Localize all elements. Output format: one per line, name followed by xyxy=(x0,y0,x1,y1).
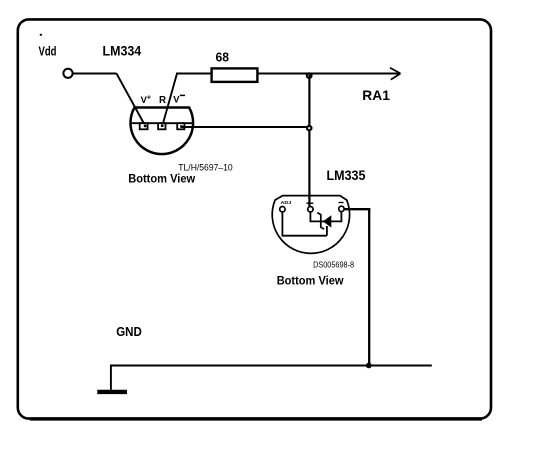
arrow head RA1 xyxy=(390,68,401,80)
node junction mid (V- rail / vertical) xyxy=(307,126,311,130)
svg-text:LM334: LM334 xyxy=(103,44,142,59)
svg-text:V: V xyxy=(173,94,180,104)
node junction ground rail xyxy=(366,363,372,369)
zener diode D1 anode triangle xyxy=(323,215,331,227)
svg-text:+: + xyxy=(147,92,152,101)
wire Vdd to V+ pin diagonal xyxy=(117,74,146,127)
wire anode tap down xyxy=(326,226,328,236)
svg-text:ADJ: ADJ xyxy=(281,200,292,205)
wire ADJ pin bottom path xyxy=(282,212,327,236)
svg-text:RA1: RA1 xyxy=(362,87,390,103)
svg-text:Vdd: Vdd xyxy=(39,44,57,59)
wire ground rail xyxy=(111,365,432,367)
pin minus of LM335 xyxy=(339,206,344,211)
ground symbol stub xyxy=(110,365,112,390)
LM334 header line xyxy=(131,122,194,124)
page border frame xyxy=(18,19,491,418)
wire top rail to resistor xyxy=(176,73,212,75)
svg-text:Bottom View: Bottom View xyxy=(277,276,344,288)
pin plus of LM335 xyxy=(308,207,313,212)
wire resistor to RA1 arrow xyxy=(257,73,400,75)
svg-text:LM335: LM335 xyxy=(327,168,366,183)
svg-text:R: R xyxy=(159,95,166,106)
pin V+ of LM334 xyxy=(140,123,148,129)
svg-text:GND: GND xyxy=(116,324,142,339)
IC U1 LM334 package outline (bottom view) xyxy=(131,108,194,155)
wire R pin to top rail diagonal xyxy=(162,74,177,127)
svg-text:DS005698-8: DS005698-8 xyxy=(313,260,354,270)
stray dot xyxy=(40,34,42,36)
IC U2 LM335 package outline (bottom view) xyxy=(272,196,349,254)
terminal Vdd xyxy=(63,69,72,78)
wire V- pin to mid junction xyxy=(181,126,308,128)
svg-text:68: 68 xyxy=(216,49,230,64)
wire minus pin to right rail xyxy=(344,208,370,210)
pin R of LM334 xyxy=(158,123,165,129)
label pin minus (bar) xyxy=(339,202,344,204)
label pin plus (bar) xyxy=(306,202,313,204)
wire Vdd horizontal xyxy=(73,73,117,75)
zener diode D1 cathode bar xyxy=(317,213,324,230)
svg-text:Bottom View: Bottom View xyxy=(128,173,195,185)
wire plus pin to zener xyxy=(310,212,341,222)
pin ADJ of LM335 xyxy=(280,207,285,212)
svg-text:TL/H/5697–10: TL/H/5697–10 xyxy=(178,162,232,173)
wire vertical junction to LM335 plus pin xyxy=(308,75,310,207)
pin V- of LM334 xyxy=(177,123,184,129)
ground symbol bar xyxy=(97,390,127,394)
node junction top (top rail / vertical) xyxy=(307,73,312,78)
wire right rail vertical down xyxy=(368,208,370,366)
